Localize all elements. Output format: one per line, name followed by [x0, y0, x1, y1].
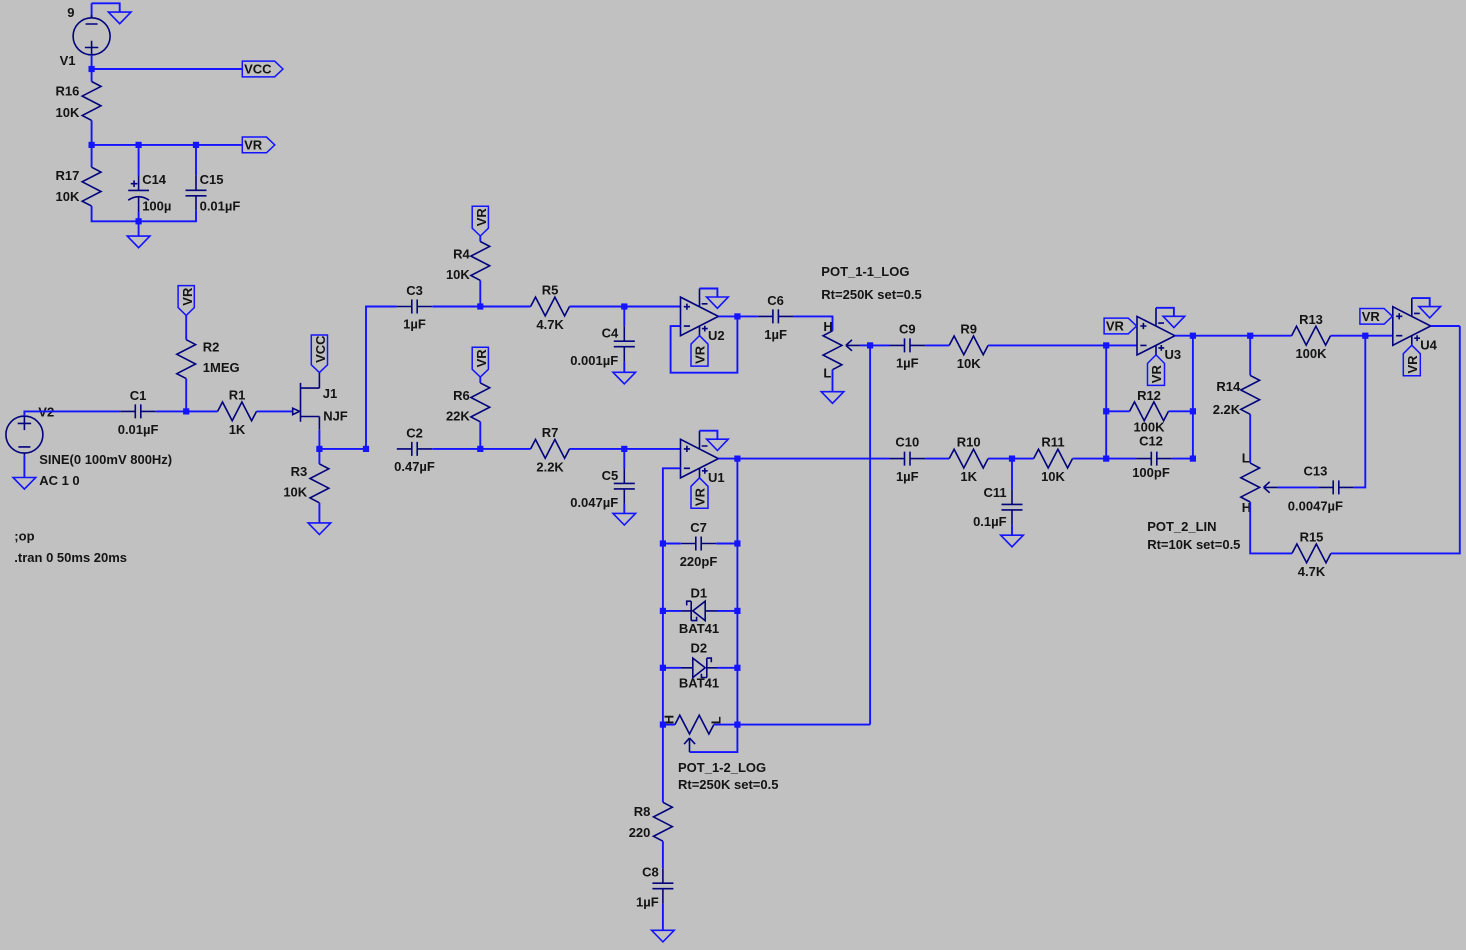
wire U1 output down (right feedback column) — [736, 459, 738, 725]
wire D2 left lead — [663, 667, 681, 669]
svg-text:R4: R4 — [453, 247, 470, 262]
potentiometer POT_1-2 — [675, 715, 714, 752]
svg-text:R16: R16 — [56, 83, 80, 98]
wire rail to ground — [138, 221, 140, 236]
node D1 left — [660, 608, 666, 614]
node left column junction — [363, 446, 369, 452]
wire node to R11 — [1012, 458, 1034, 460]
wire C14 top — [138, 145, 140, 176]
wire U2 feedback loop — [671, 316, 738, 372]
wire node to R1 — [186, 410, 217, 412]
wire R1 to J1 gate — [257, 410, 293, 412]
wire R16 to VR node — [91, 120, 93, 144]
capacitor C11 — [1002, 489, 1023, 525]
svg-text:R6: R6 — [453, 388, 470, 403]
wire J1 source down — [318, 430, 320, 449]
capacitor C3 — [397, 300, 432, 314]
wire C11 top — [1011, 459, 1013, 490]
wire R17 to bottom rail — [92, 206, 139, 221]
svg-text:10K: 10K — [56, 105, 80, 120]
wire C11 to ground — [1011, 525, 1013, 535]
op-amp U4 — [1393, 298, 1431, 345]
svg-text:R10: R10 — [957, 435, 981, 450]
svg-text:2.2K: 2.2K — [1213, 402, 1241, 417]
svg-text:R13: R13 — [1299, 312, 1323, 327]
diode D2 (BAT41) — [681, 658, 717, 677]
node R12 right — [1190, 408, 1196, 414]
wire pot1-2 H lead — [663, 724, 675, 726]
op-amp U2 V- wire to ground — [700, 289, 718, 298]
node J1 source junction — [316, 446, 322, 452]
wire node to R7 — [480, 448, 530, 450]
svg-text:NJF: NJF — [323, 408, 348, 423]
wire C4 to ground — [623, 362, 625, 373]
op-amp U1 V- wire to ground — [700, 431, 718, 440]
svg-text:POT_1-2_LOG: POT_1-2_LOG — [678, 760, 766, 775]
svg-text:R2: R2 — [203, 339, 220, 354]
svg-text:Rt=10K set=0.5: Rt=10K set=0.5 — [1147, 537, 1240, 552]
wire C15 bottom to rail — [139, 211, 196, 222]
voltage source V1 — [73, 15, 110, 55]
svg-text:0.0047µF: 0.0047µF — [1288, 498, 1343, 513]
node bottom rail junction — [136, 218, 142, 224]
resistor R9 — [949, 336, 988, 355]
wire C4 top — [623, 307, 625, 327]
svg-text:C5: C5 — [602, 468, 619, 483]
ground below C11 — [1001, 535, 1024, 547]
svg-text:C6: C6 — [767, 293, 784, 308]
op-amp U1 ground flag — [707, 439, 729, 450]
wire VR node to R17 — [91, 145, 93, 167]
svg-text:L: L — [1242, 451, 1250, 466]
svg-text:C4: C4 — [602, 326, 619, 341]
wire node to R5 — [480, 306, 530, 308]
svg-text:VR: VR — [474, 349, 489, 368]
node R10/C11 junction — [1009, 456, 1015, 462]
svg-text:C11: C11 — [983, 485, 1006, 500]
capacitor C8 — [652, 868, 673, 904]
wire C14 bottom — [138, 212, 140, 221]
svg-text:VR: VR — [1405, 355, 1420, 374]
wire R11 to C12 node — [1073, 458, 1107, 460]
svg-text:.tran 0 50ms 20ms: .tran 0 50ms 20ms — [14, 550, 127, 565]
wire C5 to ground — [623, 504, 625, 514]
svg-text:0.47µF: 0.47µF — [394, 459, 435, 474]
node C7 left — [660, 540, 666, 546]
wire left column vertical — [366, 307, 397, 449]
capacitor C7 — [681, 537, 716, 551]
ground below C4 — [613, 372, 636, 384]
svg-text:10K: 10K — [957, 356, 981, 371]
wire R6 to row B — [479, 422, 481, 449]
ground at V2 — [13, 478, 36, 490]
svg-text:10K: 10K — [446, 267, 470, 282]
wire R14 to POT_2 — [1249, 414, 1251, 463]
svg-text:VR: VR — [474, 208, 489, 227]
svg-text:R9: R9 — [960, 322, 977, 337]
svg-text:U1: U1 — [708, 470, 725, 485]
node C7 right — [734, 540, 740, 546]
resistor R14 — [1241, 375, 1260, 414]
wire V1 bottom to VCC node — [91, 55, 93, 69]
svg-text:R12: R12 — [1137, 388, 1161, 403]
resistor R3 — [310, 464, 329, 503]
svg-text:VR: VR — [1149, 365, 1164, 384]
wire VR flag to R6 — [479, 377, 481, 383]
svg-text:R7: R7 — [542, 425, 559, 440]
svg-text:SINE(0 100mV 800Hz): SINE(0 100mV 800Hz) — [39, 452, 172, 467]
wire U2 output — [718, 315, 757, 317]
wire U3 fb column — [1105, 345, 1107, 458]
node C3/R4 junction — [477, 303, 483, 309]
wire node to U2 +in — [624, 306, 680, 308]
svg-text:VCC: VCC — [313, 335, 328, 363]
svg-text:1MEG: 1MEG — [203, 360, 240, 375]
svg-text:1K: 1K — [229, 422, 246, 437]
svg-text:POT_1-1_LOG: POT_1-1_LOG — [821, 264, 909, 279]
capacitor C14 (polarized) — [128, 175, 149, 212]
wire pot1-1 wiper to node — [860, 344, 870, 346]
op-amp U2 V+ VR flag — [691, 336, 708, 367]
op-amp U2 — [681, 289, 719, 336]
wire VR flag to R2 — [185, 315, 187, 339]
potentiometer POT_1-1 — [823, 331, 860, 370]
svg-text:100K: 100K — [1295, 346, 1327, 361]
op-amp U1 — [681, 431, 719, 478]
wire D1 left lead — [663, 610, 681, 612]
wire V1 top to ground — [92, 3, 120, 17]
wire R10 to C11 node — [988, 458, 1012, 460]
ground below R3 — [308, 523, 331, 535]
svg-text:1µF: 1µF — [896, 469, 919, 484]
potentiometer POT_2 — [1241, 463, 1278, 502]
capacitor C15 — [186, 175, 207, 211]
wire D2 right lead — [717, 667, 737, 669]
svg-text:C2: C2 — [406, 425, 423, 440]
wire U4 output — [1431, 325, 1460, 327]
svg-text:U2: U2 — [708, 328, 725, 343]
wire VR flag to R4 — [479, 236, 481, 242]
svg-text:C15: C15 — [200, 172, 224, 187]
resistor R12 — [1130, 402, 1169, 421]
capacitor C13 — [1318, 480, 1354, 494]
svg-text:0.047µF: 0.047µF — [570, 495, 618, 510]
capacitor C9 — [890, 338, 926, 352]
capacitor C6 — [758, 309, 794, 323]
svg-text:VR: VR — [1106, 319, 1125, 334]
svg-text:10K: 10K — [1041, 469, 1065, 484]
wire pot H column to R8 — [662, 725, 664, 803]
transistor J1 (NJF) — [293, 373, 320, 430]
svg-text:R5: R5 — [542, 283, 559, 298]
wire C12 right lead — [1172, 458, 1193, 460]
wire C1 to R2 node — [156, 410, 186, 412]
capacitor C1 — [120, 404, 156, 418]
resistor R15 — [1292, 544, 1331, 563]
voltage source V2 — [6, 416, 43, 456]
svg-text:Rt=250K set=0.5: Rt=250K set=0.5 — [678, 777, 778, 792]
svg-text:R14: R14 — [1216, 379, 1241, 394]
wire R7 to C5 node — [570, 448, 625, 450]
svg-text:R17: R17 — [56, 168, 80, 183]
resistor R2 — [177, 340, 196, 379]
svg-text:D1: D1 — [690, 585, 707, 600]
svg-text:220: 220 — [629, 825, 651, 840]
op-amp U3 — [1137, 308, 1175, 355]
wire U3 output — [1175, 335, 1292, 337]
node R12 left — [1103, 408, 1109, 414]
svg-text:0.001µF: 0.001µF — [570, 353, 618, 368]
wire V2 top to input row — [24, 411, 120, 416]
svg-text:1µF: 1µF — [636, 895, 659, 910]
node R14 tap junction — [1247, 333, 1253, 339]
wire R5 to C4 node — [570, 306, 625, 308]
wire D1 right lead — [717, 610, 737, 612]
flag VCC at J1 drain — [311, 335, 328, 373]
capacitor C2 — [397, 442, 432, 456]
wire R12 right lead — [1169, 410, 1193, 412]
op-amp U3 V+ VR flag — [1148, 355, 1165, 386]
node R7/C5 junction — [621, 446, 627, 452]
wire VR net — [92, 144, 243, 146]
wire feedback column D2 to pot — [662, 668, 664, 725]
wire VCC node to R16 — [91, 69, 93, 82]
svg-text:BAT41: BAT41 — [679, 621, 719, 636]
flag VCC — [242, 61, 283, 77]
resistor R4 — [471, 242, 490, 281]
resistor R7 — [531, 440, 570, 459]
svg-text:100µ: 100µ — [142, 198, 171, 213]
svg-text:H: H — [823, 319, 832, 334]
svg-text:100K: 100K — [1133, 419, 1165, 434]
node D2 left — [660, 665, 666, 671]
wire C7 left lead — [663, 543, 681, 545]
wire VCC net — [92, 68, 243, 70]
wire C9 to R9 — [925, 344, 949, 346]
svg-text:0.01µF: 0.01µF — [118, 422, 159, 437]
svg-text:9: 9 — [67, 5, 74, 20]
node pot1-2 L — [734, 722, 740, 728]
wire U1 -in to feedback column — [663, 468, 681, 543]
op-amp U3 V- wire to ground — [1156, 308, 1174, 317]
svg-text:220pF: 220pF — [680, 554, 718, 569]
svg-text:R11: R11 — [1041, 435, 1064, 450]
node C12 right — [1190, 456, 1196, 462]
svg-text:;op: ;op — [14, 529, 34, 544]
resistor R17 — [82, 167, 101, 206]
svg-text:C1: C1 — [130, 388, 147, 403]
capacitor C4 — [614, 326, 635, 362]
wire wiper node to C9 — [870, 344, 889, 346]
wire R3 to ground — [318, 503, 320, 523]
node D1 right — [734, 608, 740, 614]
resistor R5 — [531, 297, 570, 316]
op-amp U4 ground flag — [1419, 307, 1441, 318]
svg-text:10K: 10K — [56, 189, 80, 204]
wire wiper node down (long vertical) — [869, 345, 871, 724]
svg-text:U3: U3 — [1165, 347, 1182, 362]
wire node to U1 +in — [624, 448, 680, 450]
op-amp U4 V- wire to ground — [1412, 298, 1430, 307]
resistor R11 — [1034, 449, 1073, 468]
wire U1 output — [718, 458, 889, 460]
svg-text:C9: C9 — [899, 321, 916, 336]
ground below C14 — [127, 236, 150, 248]
wire R4 to row A — [479, 280, 481, 306]
svg-text:1µF: 1µF — [896, 356, 919, 371]
svg-text:V1: V1 — [60, 53, 76, 68]
svg-text:J1: J1 — [323, 386, 337, 401]
wire J1 source to R3 — [318, 449, 320, 464]
op-amp U4 V+ VR flag — [1403, 345, 1420, 376]
svg-text:1µF: 1µF — [403, 317, 426, 332]
node C2/R6 junction — [477, 446, 483, 452]
svg-text:0.01µF: 0.01µF — [200, 198, 241, 213]
wire R15 to U4 out column — [1331, 326, 1460, 553]
capacitor C10 — [890, 452, 926, 466]
wire feedback column C7 to D1 — [662, 544, 664, 611]
wire C7 right lead — [716, 543, 737, 545]
svg-text:R3: R3 — [291, 464, 308, 479]
svg-text:VCC: VCC — [244, 62, 272, 77]
flag VR — [242, 137, 274, 153]
svg-text:22K: 22K — [446, 409, 470, 424]
wire U3 output column — [1192, 336, 1194, 459]
svg-text:L: L — [709, 716, 724, 724]
svg-text:VR: VR — [244, 138, 263, 153]
wire C8 to ground — [662, 904, 664, 931]
svg-text:POT_2_LIN: POT_2_LIN — [1147, 519, 1216, 534]
svg-text:1µF: 1µF — [764, 327, 787, 342]
op-amp U1 V+ VR flag — [691, 478, 708, 509]
ground below C8 — [652, 930, 675, 942]
wire V2 bottom to ground — [23, 456, 25, 478]
svg-text:4.7K: 4.7K — [536, 317, 564, 332]
flag VR above R6 — [472, 347, 489, 377]
resistor R16 — [82, 82, 101, 121]
node VR junction C15 — [193, 142, 199, 148]
wire C5 top — [623, 449, 625, 469]
resistor R13 — [1292, 326, 1331, 345]
op-amp U3 ground flag — [1163, 316, 1185, 327]
node wiper junction — [867, 342, 873, 348]
wire C2 to R6 node — [432, 448, 480, 450]
wire pot1-2 L to wiper node — [714, 724, 870, 726]
node C1/R2 junction — [183, 408, 189, 414]
capacitor C5 — [614, 468, 635, 504]
svg-text:2.2K: 2.2K — [536, 459, 564, 474]
node R5/C4 junction — [621, 303, 627, 309]
ground below POT_1-1 — [821, 392, 844, 404]
svg-text:D2: D2 — [690, 640, 707, 655]
flag VR above R4 — [472, 206, 489, 236]
svg-text:U4: U4 — [1420, 337, 1437, 352]
svg-text:C7: C7 — [690, 520, 707, 535]
svg-text:C14: C14 — [142, 172, 167, 187]
svg-text:0.1µF: 0.1µF — [973, 514, 1007, 529]
node U3 out junction — [1190, 333, 1196, 339]
svg-text:1K: 1K — [960, 469, 977, 484]
svg-text:VR: VR — [1362, 309, 1381, 324]
node U2 output junction — [734, 313, 740, 319]
svg-text:C3: C3 — [406, 283, 423, 298]
svg-text:VR: VR — [693, 487, 708, 506]
wire R9 to U3 -in — [988, 344, 1137, 346]
wire C6 to pot H — [793, 316, 832, 330]
node U1 output junction — [734, 456, 740, 462]
diode D1 (BAT41) — [681, 601, 717, 620]
svg-text:L: L — [823, 366, 831, 381]
wire C12 left lead — [1106, 458, 1136, 460]
node VCC junction — [89, 66, 95, 72]
node VR junction left — [89, 142, 95, 148]
capacitor C12 — [1136, 452, 1172, 466]
flag VR at U3 +in — [1104, 318, 1137, 334]
svg-text:C10: C10 — [895, 434, 919, 449]
wire R8 to C8 — [662, 841, 664, 868]
wire POT_2 wiper to C13 — [1278, 486, 1319, 488]
wire R14 top — [1249, 336, 1251, 376]
flag VR at U4 +in — [1360, 308, 1393, 324]
wire C10 to R10 — [925, 458, 949, 460]
wire C15 top — [195, 145, 197, 175]
svg-text:4.7K: 4.7K — [1298, 564, 1326, 579]
wire C3 to R4 node — [432, 306, 480, 308]
node C13 tap junction — [1362, 333, 1368, 339]
svg-text:BAT41: BAT41 — [679, 676, 719, 691]
wire C13 to column — [1354, 336, 1366, 488]
wire R13 to U4 -in — [1331, 335, 1393, 337]
node D2 right — [734, 665, 740, 671]
op-amp U2 ground flag — [707, 297, 729, 308]
node VR junction C14 — [136, 142, 142, 148]
svg-text:VR: VR — [180, 287, 195, 306]
ground at V1 top — [108, 12, 131, 24]
svg-text:VR: VR — [693, 345, 708, 364]
svg-text:C12: C12 — [1139, 433, 1163, 448]
resistor R6 — [471, 383, 490, 422]
resistor R10 — [949, 449, 988, 468]
wire pot1-1 L to ground — [832, 370, 834, 392]
resistor R1 — [218, 402, 257, 421]
svg-text:100pF: 100pF — [1132, 465, 1170, 480]
resistor R8 — [654, 802, 673, 841]
wire pot1-2 wiper loop — [690, 725, 738, 753]
node pot1-2 H — [660, 722, 666, 728]
svg-text:C8: C8 — [642, 864, 659, 879]
node U3 -in junction — [1103, 342, 1109, 348]
svg-text:R15: R15 — [1300, 530, 1324, 545]
wire feedback column D1 to D2 — [662, 611, 664, 668]
wire R2 to input row — [185, 379, 187, 412]
svg-text:AC 1 0: AC 1 0 — [39, 473, 79, 488]
wire R12 left lead — [1106, 410, 1129, 412]
svg-text:10K: 10K — [283, 484, 307, 499]
svg-text:C13: C13 — [1303, 464, 1327, 479]
node C12 left — [1103, 456, 1109, 462]
wire POT_2 H down — [1250, 502, 1292, 553]
wire source row to left column — [319, 448, 366, 450]
flag VR above R2 — [178, 286, 195, 316]
svg-text:R1: R1 — [229, 388, 246, 403]
svg-text:R8: R8 — [634, 804, 651, 819]
ground below C5 — [613, 513, 636, 525]
svg-text:Rt=250K set=0.5: Rt=250K set=0.5 — [821, 287, 921, 302]
